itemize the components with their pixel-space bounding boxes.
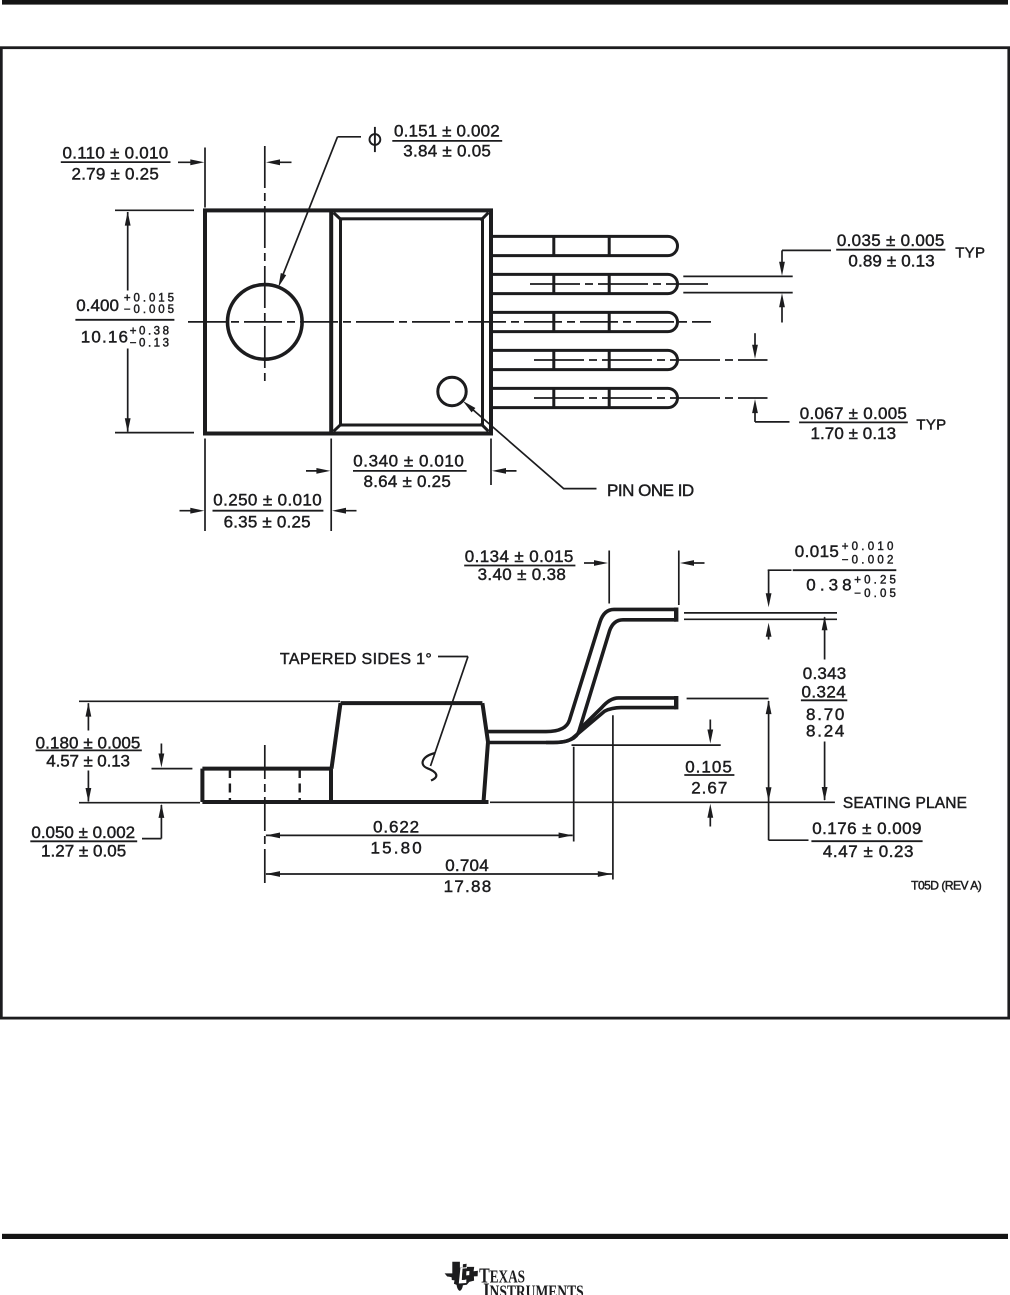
svg-text:0.105: 0.105 bbox=[685, 758, 732, 777]
svg-text:3.84 ± 0.05: 3.84 ± 0.05 bbox=[403, 142, 491, 161]
svg-text:1.70 ± 0.13: 1.70 ± 0.13 bbox=[811, 424, 897, 443]
svg-text:−0.002: −0.002 bbox=[842, 554, 894, 566]
svg-text:+0.015: +0.015 bbox=[124, 292, 174, 304]
svg-text:PIN ONE ID: PIN ONE ID bbox=[607, 481, 695, 500]
svg-text:0.622: 0.622 bbox=[373, 817, 419, 836]
svg-text:0.343: 0.343 bbox=[803, 664, 847, 683]
svg-text:15.80: 15.80 bbox=[371, 839, 423, 858]
svg-text:−0.005: −0.005 bbox=[124, 304, 174, 316]
svg-text:−0.13: −0.13 bbox=[130, 337, 170, 349]
svg-text:8.64 ± 0.25: 8.64 ± 0.25 bbox=[364, 472, 452, 491]
svg-text:0.110 ± 0.010: 0.110 ± 0.010 bbox=[63, 143, 169, 162]
svg-text:0.704: 0.704 bbox=[445, 856, 489, 875]
svg-text:0.400: 0.400 bbox=[76, 296, 119, 315]
svg-text:+0.38: +0.38 bbox=[130, 326, 170, 338]
svg-text:0.38: 0.38 bbox=[806, 576, 852, 595]
svg-text:0.151 ± 0.002: 0.151 ± 0.002 bbox=[394, 122, 500, 141]
svg-text:0.067 ± 0.005: 0.067 ± 0.005 bbox=[800, 404, 907, 423]
svg-text:3.40 ± 0.38: 3.40 ± 0.38 bbox=[478, 565, 567, 584]
svg-text:0.035 ± 0.005: 0.035 ± 0.005 bbox=[837, 231, 945, 250]
svg-text:4.47 ± 0.23: 4.47 ± 0.23 bbox=[823, 842, 914, 861]
svg-text:10.16: 10.16 bbox=[81, 328, 129, 347]
svg-text:−0.05: −0.05 bbox=[854, 588, 896, 600]
svg-text:0.176 ± 0.009: 0.176 ± 0.009 bbox=[812, 819, 922, 838]
svg-text:4.57 ± 0.13: 4.57 ± 0.13 bbox=[46, 752, 130, 771]
svg-text:SEATING PLANE: SEATING PLANE bbox=[843, 795, 967, 812]
svg-text:TAPERED SIDES 1°: TAPERED SIDES 1° bbox=[280, 651, 432, 668]
svg-text:0.250 ± 0.010: 0.250 ± 0.010 bbox=[213, 491, 322, 510]
svg-text:T05D (REV A): T05D (REV A) bbox=[911, 878, 982, 892]
svg-text:0.340 ± 0.010: 0.340 ± 0.010 bbox=[353, 452, 464, 471]
svg-text:0.89 ± 0.13: 0.89 ± 0.13 bbox=[848, 252, 935, 271]
svg-text:2.79 ± 0.25: 2.79 ± 0.25 bbox=[72, 164, 160, 183]
svg-text:+0.25: +0.25 bbox=[854, 575, 896, 587]
svg-text:8.24: 8.24 bbox=[806, 722, 845, 741]
svg-text:0.324: 0.324 bbox=[802, 683, 847, 702]
svg-text:0.134 ± 0.015: 0.134 ± 0.015 bbox=[465, 547, 574, 566]
svg-text:TYP: TYP bbox=[916, 417, 946, 434]
svg-text:0.015: 0.015 bbox=[795, 542, 840, 561]
svg-text:17.88: 17.88 bbox=[444, 877, 492, 896]
svg-text:0.050 ± 0.002: 0.050 ± 0.002 bbox=[31, 823, 135, 842]
svg-text:2.67: 2.67 bbox=[691, 779, 727, 798]
svg-text:6.35 ± 0.25: 6.35 ± 0.25 bbox=[224, 512, 311, 531]
svg-text:TYP: TYP bbox=[955, 244, 985, 261]
svg-text:+0.010: +0.010 bbox=[842, 541, 894, 553]
svg-text:0.180 ± 0.005: 0.180 ± 0.005 bbox=[36, 733, 141, 752]
svg-text:1.27 ± 0.05: 1.27 ± 0.05 bbox=[41, 842, 127, 861]
